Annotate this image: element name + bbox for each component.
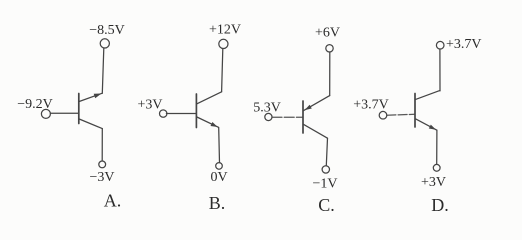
- wire B base: [166, 113, 196, 115]
- wire B top vertical: [222, 49, 223, 92]
- wire D bottom diagonal (emitter lead): [416, 119, 437, 130]
- wire C base: [272, 116, 303, 118]
- svg-text:A.: A.: [104, 191, 122, 211]
- wire C bottom vertical: [326, 138, 327, 165]
- wire C bottom diagonal: [303, 124, 327, 138]
- emitter arrow of transistor B (pointing out, down-right): [211, 122, 218, 127]
- terminal D-top: [436, 41, 444, 49]
- terminal D-bottom: [433, 164, 440, 171]
- emitter arrow of transistor C (pointing in, down-left): [305, 105, 312, 110]
- svg-text:C.: C.: [318, 195, 335, 215]
- svg-text:−3V: −3V: [89, 170, 114, 185]
- transistor D base bar: [414, 94, 416, 128]
- emitter arrow of transistor A (pointing out, up-right): [94, 94, 102, 99]
- svg-text:0V: 0V: [210, 170, 227, 185]
- terminal A-base: [41, 109, 50, 118]
- svg-text:−1V: −1V: [312, 177, 337, 192]
- svg-text:+3.7V: +3.7V: [353, 98, 389, 113]
- svg-text:−8.5V: −8.5V: [89, 23, 125, 38]
- terminal A-top: [100, 39, 109, 48]
- wire A base: [50, 112, 78, 114]
- wire D base: [387, 113, 415, 116]
- wire C top vertical: [329, 52, 331, 96]
- terminal C-base: [265, 113, 272, 120]
- wire D top diagonal (collector lead): [416, 90, 440, 99]
- transistor C base bar: [302, 101, 304, 133]
- terminal C-top: [326, 45, 333, 52]
- wire B bottom vertical: [218, 128, 221, 163]
- terminal B-bottom: [216, 163, 223, 170]
- wire B bottom diagonal (emitter lead): [197, 117, 219, 127]
- wire C top diagonal (emitter lead): [303, 96, 329, 111]
- terminal B-top: [219, 39, 228, 48]
- svg-text:+3.7V: +3.7V: [446, 37, 482, 52]
- wire D bottom vertical: [436, 130, 438, 164]
- svg-text:D.: D.: [431, 195, 449, 215]
- terminal C-bottom: [322, 166, 329, 173]
- transistor A base bar: [78, 94, 80, 124]
- emitter arrow of transistor D (pointing out, down-right): [429, 125, 436, 130]
- svg-text:+12V: +12V: [209, 23, 241, 38]
- svg-text:B.: B.: [209, 193, 226, 213]
- svg-text:+6V: +6V: [315, 26, 340, 41]
- terminal B-base: [160, 110, 167, 117]
- transistor B base bar: [195, 94, 197, 128]
- wire A top vertical: [102, 48, 104, 93]
- terminal D-base: [379, 111, 387, 119]
- wire A bottom diagonal: [79, 119, 102, 129]
- wire A top diagonal (emitter lead): [79, 93, 102, 101]
- svg-text:+3V: +3V: [421, 175, 446, 190]
- terminal A-bottom: [99, 161, 106, 168]
- svg-text:+3V: +3V: [137, 98, 162, 113]
- wire B top diagonal (collector lead): [197, 92, 222, 104]
- wire D top vertical: [439, 49, 441, 91]
- wire A bottom vertical: [101, 129, 103, 161]
